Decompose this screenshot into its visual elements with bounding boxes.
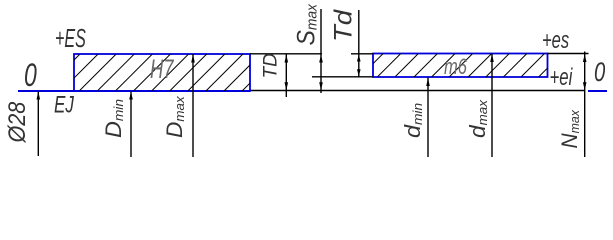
TD dimension line bbox=[285, 54, 289, 97]
zero line (black middle segment) bbox=[250, 90, 585, 92]
es level extension line (left of shaft zone) bbox=[351, 53, 373, 55]
svg-text:Ø28: Ø28 bbox=[3, 101, 30, 143]
svg-text:+es: +es bbox=[542, 27, 570, 54]
svg-text:+ES: +ES bbox=[55, 23, 86, 53]
svg-text:TD: TD bbox=[261, 53, 282, 79]
svg-text:+ei: +ei bbox=[550, 64, 574, 91]
svg-text:H7: H7 bbox=[150, 53, 174, 83]
zero line (blue right segment) bbox=[588, 90, 607, 92]
ES level extension line (right of hole zone) bbox=[250, 53, 322, 55]
Smax dimension line bbox=[319, 9, 323, 93]
svg-text:m6: m6 bbox=[444, 55, 467, 80]
es level extension line (right of shaft zone) bbox=[547, 53, 589, 55]
svg-text:Td: Td bbox=[329, 8, 358, 42]
dmax line bbox=[490, 54, 494, 158]
shaft tolerance zone rect m6 bbox=[373, 54, 548, 78]
svg-text:0: 0 bbox=[594, 57, 606, 88]
dmin line bbox=[426, 78, 430, 158]
svg-text:EJ: EJ bbox=[54, 92, 74, 119]
Dmax line bbox=[191, 54, 195, 157]
hole tolerance zone rect H7 bbox=[74, 54, 250, 91]
hatch of shaft zone bbox=[360, 54, 562, 78]
zero line (blue, left segment through hole zone) bbox=[18, 90, 250, 92]
ei level extension line (left of shaft zone) bbox=[312, 76, 373, 78]
diameter 28 dimension line bbox=[37, 92, 41, 157]
Nmax dimension line bbox=[583, 52, 587, 158]
Td dimension line bbox=[357, 10, 361, 77]
Dmin line bbox=[129, 92, 133, 158]
svg-text:0: 0 bbox=[24, 57, 37, 93]
hatch of hole zone bbox=[43, 54, 279, 91]
